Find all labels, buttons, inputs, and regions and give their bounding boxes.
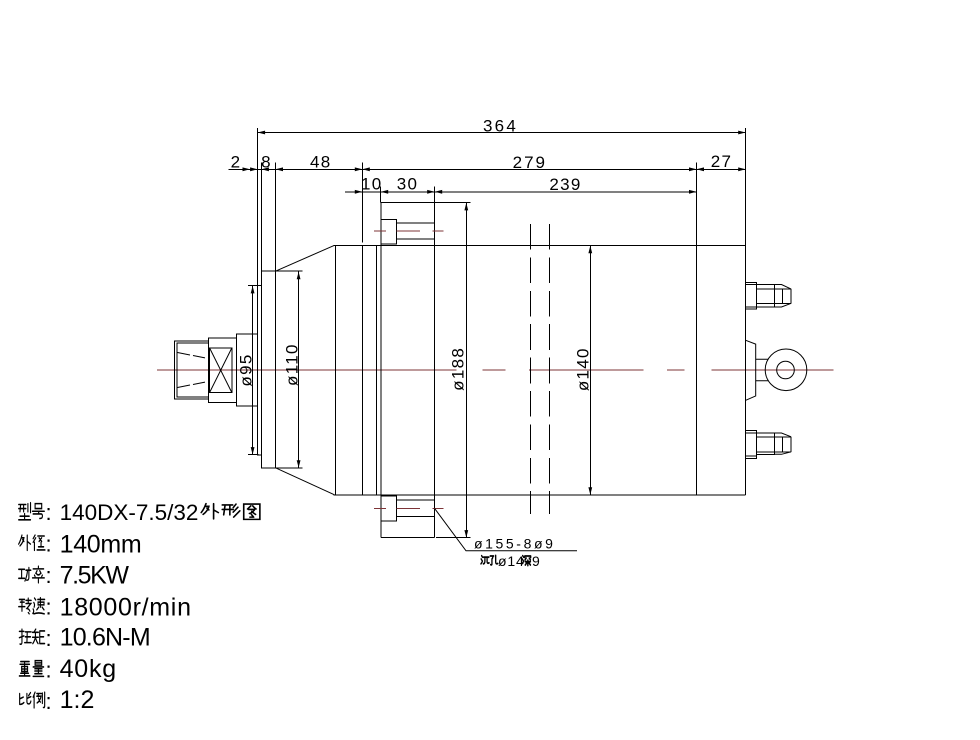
svg-text::: : xyxy=(46,532,52,557)
svg-text:279: 279 xyxy=(513,153,547,172)
dimension phi140 xyxy=(574,245,593,494)
mounting flange xyxy=(381,203,435,538)
svg-text::: : xyxy=(46,500,52,525)
spec row 2 outer-diameter label xyxy=(19,535,31,550)
front plate (phi95 seat) xyxy=(237,334,258,406)
svg-text:48: 48 xyxy=(310,153,332,172)
spec row 5 torque label xyxy=(19,629,31,644)
svg-text:2: 2 xyxy=(231,153,242,172)
leader bolt circle note xyxy=(435,508,577,551)
eye bolt ring xyxy=(765,349,807,391)
svg-text:9: 9 xyxy=(532,553,541,569)
top hose fitting xyxy=(746,282,792,309)
dimension row 10-30-239 xyxy=(345,175,697,203)
svg-text:10.6N-M: 10.6N-M xyxy=(60,624,150,652)
spec row 1 model label xyxy=(19,503,31,520)
svg-text::: : xyxy=(46,563,52,588)
dimension phi95 xyxy=(237,285,259,454)
spec row 6 weight label xyxy=(19,662,30,676)
svg-text::: : xyxy=(46,626,52,651)
eye bolt neck xyxy=(756,359,768,381)
section break dashed lines xyxy=(530,224,549,514)
svg-text:27: 27 xyxy=(711,152,733,171)
svg-text::: : xyxy=(46,689,52,714)
bottom bolt center line xyxy=(374,507,444,509)
svg-text::: : xyxy=(46,658,52,683)
svg-text:ø155-8ø9: ø155-8ø9 xyxy=(474,536,556,552)
eye bolt block xyxy=(746,340,756,400)
top flange bolt xyxy=(381,219,435,244)
dimension phi110 xyxy=(276,271,303,468)
svg-text:ø188: ø188 xyxy=(449,347,468,391)
spec row 4 speed label xyxy=(19,598,32,614)
main center axis xyxy=(157,369,834,371)
title suffix 外形图 xyxy=(201,504,218,519)
svg-text:ø14: ø14 xyxy=(498,553,525,569)
bottom flange bolt xyxy=(381,496,435,521)
top fitting tip chamfer xyxy=(775,285,792,308)
svg-text:364: 364 xyxy=(483,117,518,136)
spec text block xyxy=(19,500,260,714)
dimension 364 overall xyxy=(258,117,746,286)
taper cone xyxy=(276,245,335,494)
svg-text:10: 10 xyxy=(361,175,383,194)
top bolt center line xyxy=(374,230,444,232)
svg-text:140mm: 140mm xyxy=(60,531,142,559)
dimension phi188 xyxy=(435,203,471,538)
svg-text:8: 8 xyxy=(261,153,272,172)
leader note line2 counterbore xyxy=(481,553,541,569)
svg-text:239: 239 xyxy=(549,175,581,194)
spec row 7 scale label xyxy=(20,693,31,705)
spec row 3 power label xyxy=(19,568,31,582)
bottom hose fitting xyxy=(746,430,792,458)
front flange 8mm xyxy=(261,271,275,468)
front disc 2mm xyxy=(258,285,262,455)
spindle body outline xyxy=(334,245,746,494)
svg-text::: : xyxy=(46,595,52,620)
svg-text:140DX-7.5/32: 140DX-7.5/32 xyxy=(60,500,199,525)
svg-text:18000r/min: 18000r/min xyxy=(60,594,192,622)
svg-text:7.5KW: 7.5KW xyxy=(60,562,130,590)
bottom fitting tip chamfer xyxy=(775,433,792,454)
nut chamfer marks xyxy=(178,353,206,388)
collet block xyxy=(209,338,237,403)
svg-text:1:2: 1:2 xyxy=(60,686,95,714)
svg-text:ø95: ø95 xyxy=(237,353,256,386)
shaft nut xyxy=(175,341,209,399)
svg-text:ø140: ø140 xyxy=(574,347,593,391)
svg-text:ø110: ø110 xyxy=(283,343,302,386)
dimension row 2-8-48-279-27 xyxy=(229,152,746,271)
svg-text:40kg: 40kg xyxy=(60,655,117,683)
svg-text:30: 30 xyxy=(397,175,419,194)
collet cross box xyxy=(210,348,232,393)
